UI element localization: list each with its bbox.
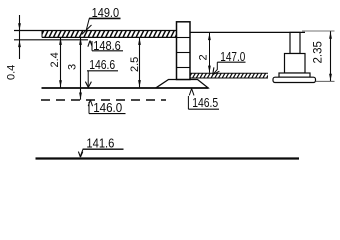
svg-text:3: 3 xyxy=(67,64,79,70)
svg-text:146.6: 146.6 xyxy=(89,58,115,72)
svg-text:148.6: 148.6 xyxy=(93,39,121,53)
svg-text:0.4: 0.4 xyxy=(6,65,18,80)
svg-text:141.6: 141.6 xyxy=(86,136,114,150)
svg-text:2.35: 2.35 xyxy=(313,41,325,63)
svg-text:2.5: 2.5 xyxy=(129,57,141,72)
svg-text:2: 2 xyxy=(198,54,210,60)
svg-text:146.5: 146.5 xyxy=(192,96,218,110)
svg-text:146.0: 146.0 xyxy=(93,101,122,115)
svg-text:2.4: 2.4 xyxy=(49,52,61,67)
